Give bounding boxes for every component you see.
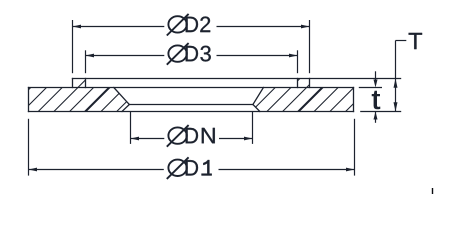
- dimension ØD3 extension lines: [86, 50, 298, 73]
- dimension ØD2 extension lines: [73, 20, 310, 73]
- label ØD1: [167, 157, 212, 179]
- dimension ØD3 line: [86, 55, 165, 57]
- label ØD3: [167, 43, 211, 65]
- ØD1 arrows: [29, 168, 355, 172]
- raised ring right inner edge: [297, 79, 299, 88]
- label t: [372, 91, 380, 109]
- dimension ØD1 line: [29, 169, 164, 171]
- dimension T extension lines: [310, 41, 407, 112]
- raised ring left outer edge: [72, 79, 74, 88]
- t arrow tails: [375, 71, 377, 80]
- t arrows: [374, 80, 378, 120]
- bore waist silhouette line: [129, 104, 253, 106]
- raised ring right outer edge: [309, 79, 311, 88]
- plate top line: [29, 87, 354, 89]
- bore chamfer left: [114, 88, 130, 105]
- bottom face line: [29, 111, 354, 113]
- ØDN arrows: [131, 137, 253, 141]
- bore chamfer right: [253, 88, 264, 105]
- border tick bottom right: [432, 188, 434, 194]
- bore bottom chamfer left: [122, 105, 129, 112]
- hatch section right: [233, 60, 397, 130]
- left outer edge: [28, 88, 30, 112]
- flange outline: [29, 79, 354, 112]
- dimension ØDN line: [131, 138, 165, 140]
- T dimension line with elbow: [395, 41, 397, 112]
- dimension t extension line: [359, 71, 382, 123]
- dimension ØDN extension lines: [131, 112, 253, 144]
- label ØD2: [167, 14, 210, 36]
- dimension ØD2 line: [73, 26, 165, 28]
- right outer edge: [353, 88, 355, 112]
- label T: [409, 33, 423, 49]
- raised ring left inner edge: [85, 79, 87, 88]
- raised face top line: [73, 78, 310, 80]
- bore bottom chamfer right: [253, 105, 260, 112]
- ØD2 arrows: [73, 25, 310, 29]
- ØD3 arrows: [86, 54, 298, 58]
- dimension ØD1 extension lines: [29, 119, 355, 176]
- label ØDN: [167, 125, 215, 147]
- hatch section left: [0, 60, 168, 130]
- T arrows: [394, 79, 398, 112]
